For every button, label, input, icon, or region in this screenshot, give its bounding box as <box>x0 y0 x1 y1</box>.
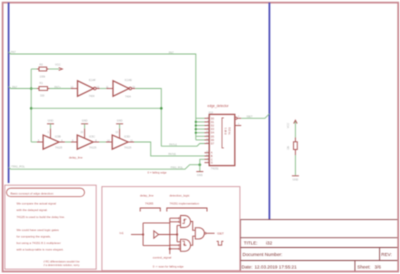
svg-text:D1: D1 <box>211 120 215 124</box>
svg-text:for comparing the signals,: for comparing the signals, <box>17 235 52 239</box>
svg-text:D5: D5 <box>211 134 215 138</box>
svg-text:D6: D6 <box>211 138 215 142</box>
svg-text:0 -> scan for falling edge: 0 -> scan for falling edge <box>153 265 184 269</box>
svg-text:control_signal: control_signal <box>153 256 172 260</box>
svg-text:PA7u1: PA7u1 <box>169 142 177 146</box>
svg-text:We could have used logic gates: We could have used logic gates <box>17 228 60 232</box>
svg-text:PA7: PA7 <box>11 50 16 54</box>
svg-text:but using a 74151 8:1 multiple: but using a 74151 8:1 multiplexer <box>17 241 61 245</box>
svg-text:with a lookup-table is more el: with a lookup-table is more elegant. <box>17 247 64 251</box>
svg-text:74125 is used to build the del: 74125 is used to build the delay line. <box>17 215 66 219</box>
svg-text:8 till 1: 8 till 1 <box>224 127 228 135</box>
svg-text:IC14F: IC14F <box>89 78 96 82</box>
svg-text:GND: GND <box>197 173 203 177</box>
svg-text:IC5C: IC5C <box>89 134 95 138</box>
svg-text:D2: D2 <box>211 124 215 128</box>
svg-text:7404: 7404 <box>125 95 131 99</box>
svg-text:G: G <box>211 161 213 165</box>
svg-text:TITLE:: TITLE: <box>244 240 258 245</box>
svg-text:delay_line: delay_line <box>140 194 154 198</box>
svg-text:D0: D0 <box>211 116 215 120</box>
svg-text:74151: 74151 <box>211 167 219 171</box>
svg-text:Document Number:: Document Number: <box>243 252 283 257</box>
svg-text:edge_detector: edge_detector <box>208 104 230 108</box>
svg-text:100k: 100k <box>40 74 46 78</box>
svg-text:PA7: PA7 <box>12 85 17 89</box>
svg-text:Sheet:: Sheet: <box>357 265 370 270</box>
svg-text:GND: GND <box>117 119 123 123</box>
svg-text:Date:: Date: <box>242 265 253 270</box>
svg-text:In1: In1 <box>120 231 125 235</box>
svg-text:with the delayed signal.: with the delayed signal. <box>17 208 48 212</box>
svg-text:PA7+: PA7+ <box>55 85 62 89</box>
svg-text:IC2: IC2 <box>209 110 214 114</box>
svg-text:!TRG_POL: !TRG_POL <box>11 164 25 168</box>
svg-text:// a deterministic solution, s: // a deterministic solution, sorry. <box>44 263 81 267</box>
svg-text:detection_logic: detection_logic <box>170 194 191 198</box>
svg-text:VCC: VCC <box>55 62 61 66</box>
svg-text:74125: 74125 <box>55 146 63 150</box>
svg-text:REV:: REV: <box>381 252 392 257</box>
svg-text:7404: 7404 <box>89 94 95 98</box>
svg-text:D3: D3 <box>211 127 215 131</box>
svg-text:IC14E: IC14E <box>125 78 132 82</box>
svg-text:i32: i32 <box>266 240 273 245</box>
svg-text:GND: GND <box>293 177 299 181</box>
svg-text:74265: 74265 <box>145 201 154 205</box>
svg-text:IC5D: IC5D <box>124 134 130 138</box>
svg-text:// RC differentiators wouldn't: // RC differentiators wouldn't be <box>44 260 81 264</box>
svg-text:3/6: 3/6 <box>375 265 382 270</box>
svg-text:!TRG_POL: !TRG_POL <box>170 165 183 169</box>
svg-text:12.03.2019 17:55:21: 12.03.2019 17:55:21 <box>255 265 298 270</box>
svg-text:330: 330 <box>40 93 45 97</box>
svg-text:VCC: VCC <box>286 123 290 129</box>
svg-text:74125: 74125 <box>89 146 97 150</box>
svg-text:74125: 74125 <box>124 146 132 150</box>
svg-text:R2: R2 <box>40 62 44 66</box>
svg-text:PA7d1: PA7d1 <box>168 152 176 156</box>
svg-text:74 151: 74 151 <box>229 127 232 135</box>
svg-text:Basic concept of edge detectio: Basic concept of edge detection: <box>11 191 55 195</box>
svg-text:D7: D7 <box>211 142 215 146</box>
svg-text:IC5B: IC5B <box>55 134 61 138</box>
svg-text:GND: GND <box>82 119 88 123</box>
svg-text:!DET: !DET <box>247 115 253 119</box>
svg-text:!DET: !DET <box>217 232 224 236</box>
svg-text:GND: GND <box>48 119 54 123</box>
svg-text:R1: R1 <box>40 81 44 85</box>
svg-text:0 = falling edge: 0 = falling edge <box>148 170 167 174</box>
svg-text:74151 implementation: 74151 implementation <box>170 201 200 205</box>
svg-text:delay_line: delay_line <box>69 156 83 160</box>
svg-text:We compare the actual signal: We compare the actual signal <box>17 201 57 205</box>
svg-text:D4: D4 <box>211 131 215 135</box>
svg-text:PA7: PA7 <box>169 50 174 54</box>
